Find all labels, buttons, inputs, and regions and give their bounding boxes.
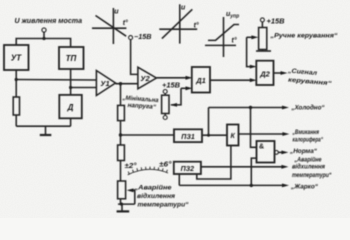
terminal +15В min	[163, 90, 167, 94]
block Д	[59, 95, 82, 118]
wiper R3	[130, 190, 135, 204]
graph 1 axes	[112, 8, 114, 44]
wire ТП bottom	[70, 69, 72, 95]
op-amp У1	[96, 71, 115, 96]
potentiometer min voltage	[164, 94, 166, 96]
wire wiper to Д2	[247, 37, 253, 66]
wire branch up to cold line	[208, 108, 210, 136]
terminal -15В	[129, 36, 133, 40]
dial arc ticks	[128, 169, 168, 174]
node hot	[250, 184, 253, 187]
wire ПЗ1 out	[202, 134, 227, 136]
wire ground bus	[16, 125, 70, 127]
wire ПЗ2 to hot line	[178, 174, 180, 185]
terminal +15В manual	[260, 18, 264, 22]
block ПЗ1	[174, 129, 202, 142]
block Д1	[192, 67, 210, 93]
wiper min voltage	[171, 88, 181, 105]
graph 1 characteristic	[96, 16, 127, 37]
wire node to ПЗ1	[121, 134, 175, 136]
ground bottom	[121, 204, 123, 211]
resistor R0	[13, 97, 19, 115]
wire wiper to Д1	[181, 87, 188, 89]
block Д2	[256, 61, 273, 85]
wire R1 to node	[120, 121, 122, 145]
node B	[69, 86, 72, 89]
node R3 bottom	[120, 203, 123, 206]
ground	[45, 126, 47, 134]
wire to У1 input1	[16, 79, 96, 82]
wiper manual	[247, 36, 253, 38]
resistor R2	[118, 145, 125, 161]
wire supply bus	[16, 39, 70, 48]
node divider1	[119, 133, 122, 136]
wire ПЗ2 К link	[197, 146, 231, 180]
graph 3 characteristic	[208, 25, 239, 41]
wire gate out	[278, 151, 284, 153]
node У1 out	[119, 82, 122, 85]
wire К out	[239, 133, 286, 135]
resistor R1	[120, 84, 122, 105]
wire Д1 to Д2	[210, 79, 253, 81]
graph 3 axes	[223, 17, 225, 57]
graph 2 characteristic	[162, 9, 192, 38]
potentiometer manual	[261, 22, 263, 27]
wire R3 bottom	[120, 199, 122, 204]
wire R0 to ground bus	[15, 115, 17, 126]
gate AND	[257, 141, 275, 163]
wire ПЗ2 out alarm line	[201, 166, 284, 168]
node ПЗ1 branch	[207, 134, 210, 137]
wire hot line	[179, 184, 284, 186]
wire У1 out	[116, 83, 138, 85]
node supply junction	[42, 37, 45, 40]
wire to У1 input2	[71, 87, 97, 89]
wire cold to gate input1	[251, 108, 257, 148]
wire hot to gate input2	[251, 158, 256, 185]
block УТ	[4, 45, 29, 70]
wire terminal down	[43, 32, 45, 38]
wire Д2 out	[274, 72, 284, 74]
block К	[227, 125, 239, 146]
terminal bridge supply	[42, 28, 46, 32]
wire cold line	[209, 107, 285, 109]
wire У2 out to Д1	[156, 77, 188, 79]
op-amp У2	[138, 67, 157, 89]
node cold	[249, 106, 252, 109]
wire Д to ground bus	[70, 118, 72, 126]
wire R2 to R3	[120, 161, 122, 182]
block ПЗ2	[174, 162, 201, 174]
potentiometer R3	[118, 181, 126, 199]
node A	[15, 78, 18, 81]
block ТП	[59, 47, 84, 69]
graph 2 axes	[179, 4, 181, 43]
wire УТ bottom	[15, 70, 17, 97]
wire -15В to У2	[131, 40, 138, 75]
